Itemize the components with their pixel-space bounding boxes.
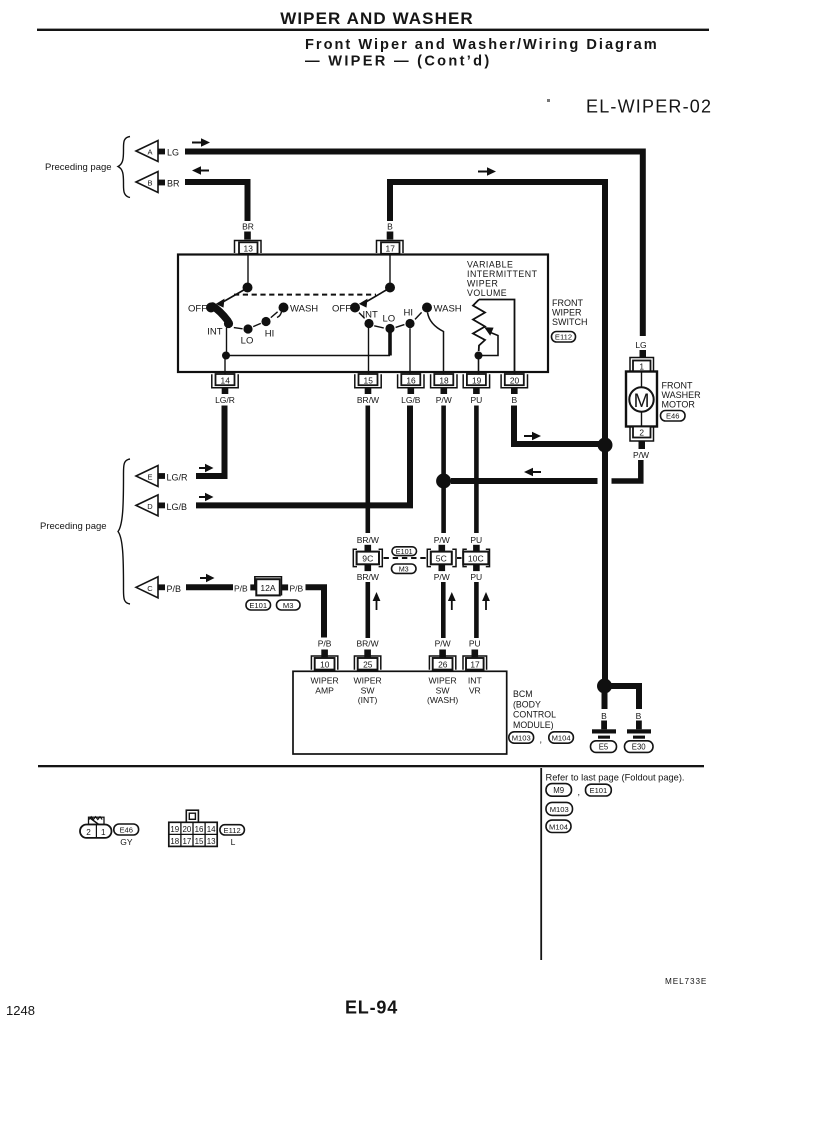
svg-text:P/W: P/W: [435, 639, 451, 649]
tick INT-LO: [234, 328, 243, 329]
svg-text:M103: M103: [512, 734, 531, 743]
junction dot P/W: [436, 474, 451, 489]
connector oval E30: [625, 741, 654, 753]
svg-text:BR/W: BR/W: [357, 395, 379, 405]
stub 17: [387, 232, 394, 240]
stub pin 25: [364, 650, 371, 659]
connector 17: [377, 241, 404, 254]
svg-text:Preceding page: Preceding page: [40, 521, 107, 532]
page arrow E: [136, 466, 165, 487]
svg-text:16: 16: [406, 375, 416, 385]
svg-text:18: 18: [170, 837, 179, 846]
page arrow B: [136, 172, 165, 193]
svg-text:SW: SW: [361, 685, 376, 695]
BCM connector 17: [463, 656, 487, 670]
scan speck: [547, 99, 550, 102]
svg-text:14: 14: [207, 825, 216, 834]
svg-text:D: D: [147, 502, 153, 511]
refer block vertical line: [540, 768, 542, 960]
svg-text:10: 10: [320, 659, 330, 669]
svg-text:AMP: AMP: [315, 685, 334, 695]
connector oval E112 (pinout): [220, 825, 245, 835]
wire right LO drop: [388, 330, 392, 356]
svg-text:M: M: [634, 391, 650, 412]
LO dot (right): [385, 324, 394, 333]
svg-text:15: 15: [364, 375, 374, 385]
variable resistor zigzag: [473, 300, 485, 352]
connector 16: [398, 374, 424, 394]
svg-text:BR/W: BR/W: [356, 639, 378, 649]
separator rule: [38, 765, 704, 767]
label WIPER AMP: [311, 676, 339, 696]
svg-text:M103: M103: [550, 805, 569, 814]
svg-text:WIPER: WIPER: [311, 676, 339, 686]
svg-text:VOLUME: VOLUME: [467, 288, 507, 298]
ground junction dot: [597, 679, 612, 694]
svg-text:EL-94: EL-94: [345, 998, 398, 1018]
svg-text:GY: GY: [120, 837, 133, 847]
svg-text:1: 1: [639, 362, 644, 372]
INT dot (left): [224, 319, 233, 328]
resistor wiper arrow: [482, 327, 498, 355]
stub 13: [244, 232, 251, 240]
wire BR/W 9C to BCM pin 25: [365, 582, 370, 638]
svg-text:EL-WIPER-02: EL-WIPER-02: [586, 97, 712, 117]
header rule: [37, 29, 709, 31]
svg-text:OFF: OFF: [332, 304, 351, 315]
connector 19: [463, 374, 489, 394]
svg-text:15: 15: [195, 837, 204, 846]
svg-text:LO: LO: [241, 336, 254, 347]
svg-text:LG/R: LG/R: [215, 395, 235, 405]
svg-text:P/B: P/B: [234, 583, 248, 593]
wire INT down to node: [226, 328, 228, 354]
svg-text:1248: 1248: [6, 1003, 35, 1018]
connector oval M3 (splice row): [392, 564, 417, 573]
dashed link 5C to 10C: [457, 557, 462, 559]
tick OFF-INT: [359, 313, 365, 319]
left switch arm to OFF with arrowhead: [216, 289, 246, 308]
svg-text:LG: LG: [635, 340, 646, 350]
label WIPER SW (WASH): [427, 676, 458, 706]
svg-text:CONTROL: CONTROL: [513, 710, 556, 720]
svg-text:13: 13: [207, 837, 216, 846]
svg-text:E: E: [147, 473, 152, 482]
mechanical coupling dashed line: [234, 294, 376, 296]
svg-text:17: 17: [386, 244, 396, 254]
flow arrow up BR/W: [373, 592, 381, 610]
svg-text:5C: 5C: [436, 554, 447, 564]
svg-text:P/B: P/B: [167, 584, 182, 594]
ground symbol E30: [627, 729, 651, 738]
svg-text:HI: HI: [265, 329, 275, 340]
svg-text:P/W: P/W: [434, 572, 450, 582]
svg-text:LG: LG: [167, 148, 179, 158]
svg-text:1: 1: [101, 828, 106, 837]
svg-text:19: 19: [472, 375, 482, 385]
svg-text:M3: M3: [283, 601, 294, 610]
svg-text:MODULE): MODULE): [513, 720, 554, 730]
svg-text:Front Wiper and Washer/Wiring: Front Wiper and Washer/Wiring Diagram: [305, 37, 659, 53]
svg-text:WASH: WASH: [434, 304, 462, 315]
flow arrow right on LG/R: [199, 464, 214, 472]
svg-text:25: 25: [363, 659, 373, 669]
WASH dot (left): [279, 303, 289, 313]
motor connector 2: [630, 427, 654, 442]
svg-text:17: 17: [183, 837, 192, 846]
svg-text:E30: E30: [632, 743, 647, 752]
connector 18: [431, 374, 457, 394]
wire WASH to pin 18: [428, 313, 444, 375]
thick arm OFF-INT (left): [213, 306, 229, 321]
tick LO-HI: [253, 323, 261, 326]
svg-text:E46: E46: [666, 412, 680, 421]
HI dot (left): [261, 317, 270, 326]
svg-text:B: B: [147, 179, 152, 188]
flow arrow right on P/B: [200, 574, 215, 582]
OFF dot (right): [350, 303, 360, 313]
INT dot (right): [364, 319, 373, 328]
svg-text:E112: E112: [224, 826, 241, 835]
flow arrow right on LG: [192, 138, 210, 146]
stub out of 12A: [282, 584, 288, 590]
svg-text:INT: INT: [363, 310, 379, 321]
svg-text:B: B: [511, 395, 517, 405]
E112 pinout grid: [169, 822, 217, 846]
svg-text:LG/B: LG/B: [401, 395, 421, 405]
svg-text:INT: INT: [207, 327, 223, 338]
svg-text:20: 20: [510, 375, 520, 385]
joint connector 12A: [255, 577, 282, 596]
connector oval M104 (refer): [546, 820, 571, 832]
stub into 12A: [250, 584, 256, 590]
ground symbol E5: [592, 729, 616, 738]
label INT VR: [468, 676, 483, 696]
connector oval M3 (under 12A): [277, 600, 301, 610]
tick LO-HI (right): [396, 325, 405, 328]
svg-text:M3: M3: [399, 564, 409, 573]
svg-text:13: 13: [244, 244, 254, 254]
svg-text:10C: 10C: [468, 554, 484, 564]
motor M circle: [629, 387, 653, 412]
svg-text:E101: E101: [396, 547, 413, 556]
connector 20: [501, 374, 527, 394]
svg-text:M9: M9: [553, 786, 564, 795]
svg-text:E5: E5: [599, 743, 609, 752]
wire conn17 to right pivot: [389, 254, 391, 285]
connector oval E101 (under 12A): [246, 600, 271, 610]
connector oval E112: [552, 332, 576, 343]
wire BR: arrow B to connector 13: [185, 182, 248, 221]
svg-text:12A: 12A: [260, 583, 276, 593]
motor internal lead top: [641, 372, 643, 388]
wire LG/B pin16 to arrow D: [196, 406, 410, 506]
BCM connector 25: [354, 656, 380, 670]
flow arrow right on pin20 B wire: [524, 432, 541, 440]
resistor bottom node dot: [475, 352, 483, 360]
page arrow C: [136, 577, 165, 598]
node dot pin14 junction: [222, 352, 230, 360]
svg-text:— WIPER — (Cont’d): — WIPER — (Cont’d): [305, 54, 492, 70]
svg-text:FRONT: FRONT: [552, 298, 583, 308]
motor connector 1: [630, 358, 654, 372]
connector oval E5: [591, 741, 617, 753]
svg-text:9C: 9C: [362, 554, 373, 564]
wire right HI to pin 16: [409, 328, 411, 374]
svg-text:M104: M104: [549, 823, 568, 832]
tick INT-LO (right): [374, 326, 384, 328]
svg-text:WIPER: WIPER: [429, 676, 457, 686]
svg-text:19: 19: [170, 825, 179, 834]
wire pin20 B to main run: [514, 406, 602, 445]
wire right INT to pin 15: [368, 328, 370, 374]
wire B: connector 17 up, right, down main run to ground junction: [390, 182, 605, 686]
svg-text:L: L: [231, 837, 236, 847]
svg-text:14: 14: [221, 375, 231, 385]
wire motor P/W down and left: [612, 460, 641, 481]
wire node down to pin 14: [224, 356, 226, 374]
connector 14: [212, 374, 238, 394]
svg-text:(INT): (INT): [358, 695, 378, 705]
svg-text:B: B: [636, 711, 642, 721]
page arrow D: [136, 495, 165, 516]
WASH dot (right): [422, 303, 432, 313]
svg-text:2: 2: [86, 828, 91, 837]
flow arrow up PU: [482, 592, 490, 610]
wire BR/W pin15 down to 9C: [365, 406, 370, 534]
connector oval M104: [549, 732, 574, 743]
variable intermittent wiper volume label: [467, 260, 538, 299]
flow arrow right on B: [478, 167, 496, 175]
connector oval M103: [509, 732, 534, 743]
svg-text:WIPER: WIPER: [467, 279, 498, 289]
left switch pivot: [243, 283, 253, 293]
wire PU pin19 down to 10C: [474, 406, 479, 534]
svg-text:WASHER: WASHER: [662, 390, 702, 400]
svg-text:INTERMITTENT: INTERMITTENT: [467, 269, 538, 279]
connector oval E46 (motor): [661, 411, 686, 422]
LO dot (left): [243, 324, 252, 333]
svg-text:C: C: [147, 584, 153, 593]
BCM connector 26: [429, 656, 455, 670]
front wiper switch label: [552, 298, 588, 327]
brace middle: [118, 459, 130, 604]
tick HI-WASH (right): [415, 312, 422, 319]
svg-text:INT: INT: [468, 676, 483, 686]
svg-text:(WASH): (WASH): [427, 695, 458, 705]
svg-text:16: 16: [195, 825, 204, 834]
page arrow A: [136, 141, 165, 162]
connector oval E46 (pinout): [114, 824, 139, 835]
stub pin 17: [472, 650, 479, 659]
stub motor 1: [640, 350, 647, 358]
connector oval M103 (refer): [546, 802, 573, 815]
svg-text:E101: E101: [249, 601, 267, 610]
svg-text:BR/W: BR/W: [357, 572, 379, 582]
brace top: [118, 137, 130, 198]
wire P/W pin18 to dot: [441, 406, 446, 476]
dashed link 9C to 5C: [384, 557, 430, 559]
svg-text:A: A: [147, 148, 152, 157]
svg-text:FRONT: FRONT: [662, 381, 693, 391]
svg-text:E112: E112: [555, 333, 572, 342]
wire P/B to BCM pin 10: [306, 587, 325, 637]
variable resistor top bar to pin 20: [479, 300, 515, 375]
svg-text:PU: PU: [470, 535, 482, 545]
svg-text:2: 2: [639, 428, 644, 438]
svg-text:MOTOR: MOTOR: [662, 400, 696, 410]
svg-text:WIPER: WIPER: [354, 676, 382, 686]
wire conn13 to left pivot: [247, 254, 249, 285]
flow arrow left on P/W horizontal: [524, 468, 541, 476]
front washer motor box: [626, 372, 657, 427]
label WIPER SW (INT): [354, 676, 382, 706]
svg-text:PU: PU: [469, 639, 481, 649]
wash tail (left): [277, 312, 282, 318]
wire node to right LO: [226, 355, 390, 357]
svg-text:26: 26: [438, 659, 448, 669]
svg-text:WIPER AND WASHER: WIPER AND WASHER: [280, 9, 474, 28]
connector oval E101 (refer): [586, 784, 612, 796]
wire junction to E30 branch: [605, 686, 640, 709]
svg-text:,: ,: [540, 735, 543, 745]
svg-text:MEL733E: MEL733E: [665, 977, 707, 986]
BCM box: [293, 671, 507, 754]
connector 13: [235, 241, 262, 254]
motor internal lead bottom: [641, 412, 643, 428]
svg-text:BR: BR: [167, 179, 180, 189]
svg-text:VARIABLE: VARIABLE: [467, 260, 513, 270]
connector oval E101 (splice row): [392, 547, 417, 556]
svg-text:HI: HI: [404, 308, 414, 319]
svg-text:20: 20: [183, 825, 192, 834]
E112 pinout tab: [186, 810, 198, 822]
wire LG: arrow A to washer motor: [185, 152, 643, 337]
svg-text:LG/B: LG/B: [167, 502, 188, 512]
connector 5C: [427, 545, 456, 571]
svg-text:BR/W: BR/W: [357, 535, 379, 545]
BCM connector 10: [311, 656, 337, 670]
right switch pivot: [385, 283, 395, 293]
svg-text:P/W: P/W: [633, 450, 649, 460]
svg-text:BR: BR: [242, 222, 254, 232]
stub E5: [601, 721, 607, 730]
svg-text:PU: PU: [470, 395, 482, 405]
svg-text:LO: LO: [383, 314, 396, 325]
svg-text:PU: PU: [470, 572, 482, 582]
svg-text:VR: VR: [469, 685, 481, 695]
wire P/W 5C to BCM pin 26: [441, 582, 446, 638]
svg-text:B: B: [601, 711, 607, 721]
flow arrow left on BR: [192, 166, 209, 174]
svg-text:18: 18: [439, 375, 449, 385]
junction dot main run at washer motor: [598, 438, 613, 453]
svg-text:Refer to last page (Foldout pa: Refer to last page (Foldout page).: [546, 773, 685, 783]
svg-text:BCM: BCM: [513, 689, 533, 699]
svg-text:E46: E46: [119, 826, 133, 835]
OFF dot (left): [206, 303, 216, 313]
svg-text:OFF: OFF: [188, 304, 207, 315]
svg-text:P/B: P/B: [318, 639, 332, 649]
svg-text:P/W: P/W: [434, 535, 450, 545]
svg-text:WIPER: WIPER: [552, 308, 582, 318]
svg-text:,: ,: [578, 787, 581, 797]
svg-text:SWITCH: SWITCH: [552, 317, 588, 327]
front washer motor label: [662, 381, 702, 410]
right switch arm to OFF with arrowhead: [359, 289, 388, 308]
wire P/B arrow C to 12A: [186, 584, 233, 590]
label BCM (BODY CONTROL MODULE): [513, 689, 556, 730]
flow arrow right on LG/B: [199, 493, 214, 501]
E46 pinout body: [80, 825, 112, 838]
svg-text:17: 17: [470, 659, 480, 669]
svg-text:LG/R: LG/R: [167, 473, 189, 483]
connector 10C: [463, 545, 489, 571]
svg-text:P/W: P/W: [436, 395, 452, 405]
wire junction down to E5: [602, 686, 608, 709]
connector oval M9: [546, 784, 572, 797]
svg-text:Preceding page: Preceding page: [45, 162, 112, 173]
svg-text:(BODY: (BODY: [513, 699, 541, 709]
wire PU 10C to BCM pin 17: [474, 582, 479, 638]
stub pin 26: [439, 650, 446, 659]
stub E30: [636, 721, 642, 730]
stub pin 10: [321, 650, 328, 659]
svg-text:M104: M104: [552, 734, 571, 743]
connector 9C: [353, 545, 382, 571]
svg-text:B: B: [387, 222, 393, 232]
svg-text:P/B: P/B: [290, 583, 304, 593]
front wiper switch box: [178, 255, 548, 373]
svg-text:E101: E101: [590, 786, 608, 795]
svg-text:WASH: WASH: [290, 304, 318, 315]
wire LG/R pin14 to arrow E: [196, 406, 225, 477]
flow arrow up P/W: [448, 592, 456, 610]
wire P/W horizontal to junction dot (hop over main run): [451, 478, 598, 484]
wire P/W dot down to 5C: [441, 487, 446, 533]
tick HI-WASH: [271, 312, 278, 318]
HI dot (right): [405, 319, 414, 328]
connector 15: [355, 374, 381, 394]
E46 pinout tab: [89, 817, 105, 827]
svg-text:SW: SW: [436, 685, 451, 695]
wire resistor node to pin 19: [478, 356, 480, 374]
stub motor 2: [639, 442, 646, 450]
